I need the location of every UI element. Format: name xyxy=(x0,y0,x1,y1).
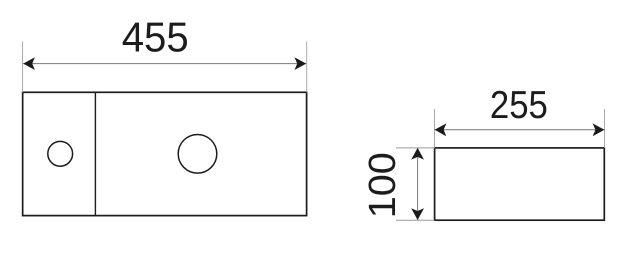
arrowhead top 100 xyxy=(411,148,424,160)
arrowhead right 455 xyxy=(295,57,307,70)
arrowhead bottom 100 xyxy=(411,208,424,220)
svg-text:455: 455 xyxy=(122,14,189,61)
extension line left of 455 xyxy=(22,41,24,92)
extension line right of 255 xyxy=(604,109,606,148)
drain circle xyxy=(178,135,217,174)
svg-text:100: 100 xyxy=(362,152,404,218)
small hole circle xyxy=(48,141,73,166)
side view outline (255 x 100) xyxy=(435,148,605,220)
extension line left of 255 xyxy=(434,109,436,148)
top view outline (455 basin) xyxy=(23,92,307,215)
svg-text:255: 255 xyxy=(490,84,548,127)
dimension line 455 xyxy=(23,63,306,65)
divider line xyxy=(94,92,96,215)
extension line top of 100 xyxy=(396,147,435,149)
extension line bottom of 100 xyxy=(396,219,435,221)
arrowhead left 255 xyxy=(435,123,447,136)
arrowhead left 455 xyxy=(23,57,35,70)
arrowhead right 255 xyxy=(593,123,605,136)
dimension line 100 xyxy=(417,148,419,220)
extension line right of 455 xyxy=(306,41,308,92)
dimension line 255 xyxy=(435,129,605,131)
